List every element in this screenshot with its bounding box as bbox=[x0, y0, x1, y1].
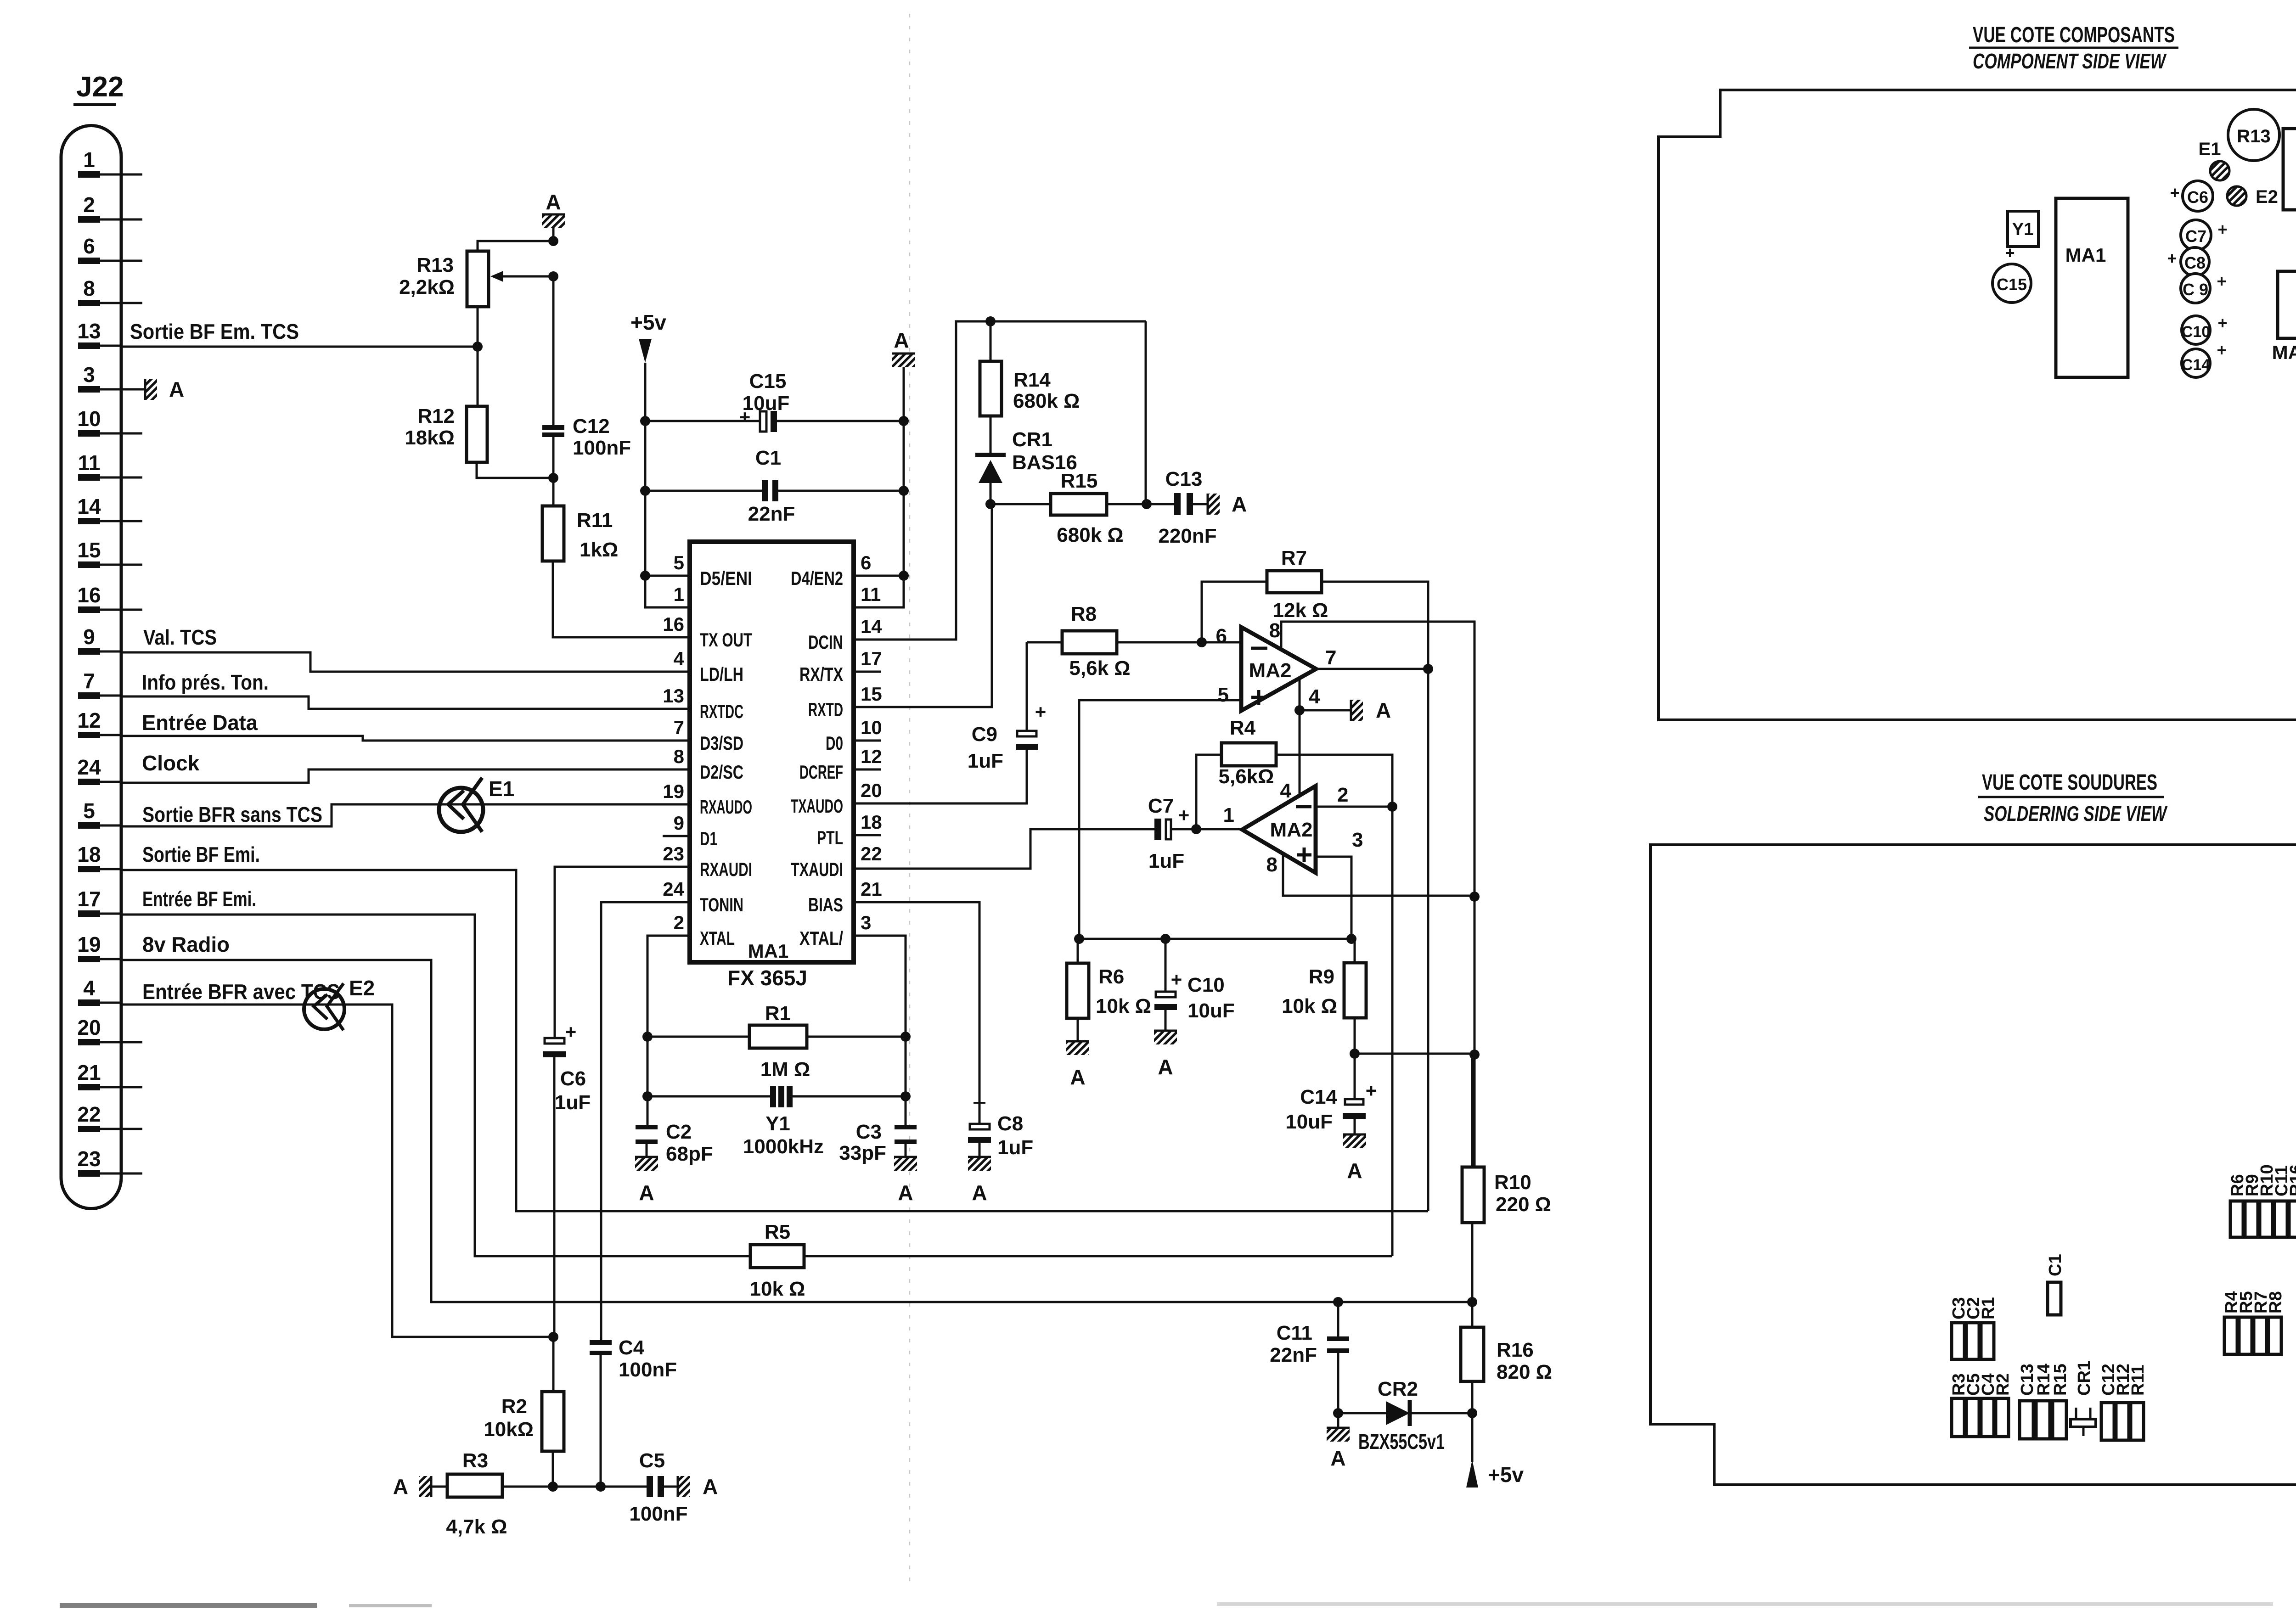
svg-text:5,6kΩ: 5,6kΩ bbox=[1219, 765, 1274, 788]
op-amp U-B MA2 (lower) bbox=[1242, 786, 1316, 873]
svg-text:+: + bbox=[1366, 1080, 1377, 1101]
ground A below R6 bbox=[1066, 1041, 1089, 1055]
ferrite bead E2 bbox=[304, 989, 344, 1029]
ground A below C14 bbox=[1343, 1134, 1366, 1148]
svg-text:Sortie BF Emi.: Sortie BF Emi. bbox=[142, 842, 260, 866]
svg-text:BZX55C5v1: BZX55C5v1 bbox=[1358, 1430, 1445, 1454]
svg-text:12: 12 bbox=[77, 708, 101, 732]
svg-text:RXTDC: RXTDC bbox=[700, 701, 743, 722]
svg-text:10kΩ: 10kΩ bbox=[484, 1418, 534, 1441]
svg-text:C10: C10 bbox=[1187, 974, 1225, 996]
PCB part C9 (component view) bbox=[2181, 274, 2210, 303]
svg-text:14: 14 bbox=[861, 616, 882, 637]
svg-text:D2/SC: D2/SC bbox=[700, 761, 743, 783]
svg-text:PTL: PTL bbox=[817, 827, 843, 848]
svg-text:1: 1 bbox=[1223, 804, 1234, 826]
op-amp U-A MA2 (upper) bbox=[1241, 627, 1316, 711]
svg-text:820 Ω: 820 Ω bbox=[1497, 1361, 1552, 1383]
svg-text:R8: R8 bbox=[1071, 603, 1097, 625]
svg-text:3: 3 bbox=[83, 363, 95, 387]
svg-text:C15: C15 bbox=[749, 370, 787, 393]
svg-text:+: + bbox=[2005, 243, 2015, 262]
svg-text:COMPONENT SIDE VIEW: COMPONENT SIDE VIEW bbox=[1973, 49, 2167, 73]
ground A below C10 bbox=[1154, 1031, 1177, 1044]
svg-text:C 9: C 9 bbox=[2183, 280, 2208, 299]
svg-text:A: A bbox=[393, 1475, 408, 1499]
potentiometer R13 2,2k bbox=[467, 251, 489, 307]
svg-text:1M Ω: 1M Ω bbox=[760, 1058, 810, 1081]
svg-text:18kΩ: 18kΩ bbox=[405, 427, 455, 449]
svg-text:RXAUDI: RXAUDI bbox=[700, 859, 752, 880]
svg-text:C15: C15 bbox=[1997, 275, 2027, 294]
wire R15 to C13 node bbox=[1107, 503, 1174, 505]
wire R2 to bottom rail bbox=[552, 1451, 554, 1487]
svg-text:16: 16 bbox=[663, 613, 684, 635]
svg-text:Sortie BF Em. TCS: Sortie BF Em. TCS bbox=[130, 320, 299, 343]
svg-text:6: 6 bbox=[83, 234, 95, 258]
svg-text:2,2kΩ: 2,2kΩ bbox=[399, 276, 455, 298]
capacitor C2 68pF bbox=[647, 1125, 649, 1127]
svg-text:C12: C12 bbox=[573, 415, 610, 438]
svg-text:+: + bbox=[565, 1021, 577, 1043]
svg-text:Clock: Clock bbox=[142, 751, 200, 775]
svg-text:A: A bbox=[639, 1181, 654, 1205]
wire ground column to MA1 pins 6 and 11 bbox=[854, 367, 904, 607]
svg-text:A: A bbox=[1158, 1055, 1173, 1079]
svg-text:100nF: 100nF bbox=[629, 1503, 687, 1525]
PCB part C7 (component view) bbox=[2181, 220, 2211, 250]
svg-text:D4/EN2: D4/EN2 bbox=[791, 567, 843, 589]
wire MA1 TXAUDI pin 22 to C7 bbox=[854, 829, 1154, 869]
svg-text:RXAUDO: RXAUDO bbox=[700, 796, 752, 818]
resistor R6 10k bbox=[1077, 939, 1079, 963]
svg-text:R16: R16 bbox=[2287, 1164, 2296, 1196]
PCB part MA2 (component view) bbox=[2278, 271, 2296, 338]
svg-text:10: 10 bbox=[77, 407, 101, 431]
wire net Entree BFR avec TCS (J22-4 through E2, down to C6/R2 junction) bbox=[121, 1005, 553, 1337]
svg-text:MA1: MA1 bbox=[2065, 244, 2106, 266]
wire R12 bottom to C12 node bbox=[477, 462, 553, 478]
wire net Entree BF Emi. (J22-17 down to R5) bbox=[121, 915, 750, 1256]
capacitor C10 10uF bbox=[1165, 939, 1167, 993]
capacitor C4 100nF bbox=[590, 1340, 612, 1345]
svg-text:+: + bbox=[739, 406, 751, 428]
svg-text:R11: R11 bbox=[2128, 1364, 2148, 1396]
svg-text:4: 4 bbox=[674, 648, 685, 669]
svg-text:C13: C13 bbox=[1165, 468, 1203, 490]
svg-text:23: 23 bbox=[663, 843, 684, 864]
svg-text:A: A bbox=[546, 190, 561, 214]
svg-text:A: A bbox=[1232, 492, 1247, 516]
svg-text:MA1: MA1 bbox=[748, 940, 789, 962]
svg-text:C3: C3 bbox=[856, 1121, 882, 1143]
wire op-amp B plus input down to bias rail bbox=[1316, 857, 1351, 939]
svg-text:11: 11 bbox=[78, 451, 101, 475]
svg-text:3: 3 bbox=[861, 912, 871, 933]
svg-text:21: 21 bbox=[77, 1061, 101, 1084]
svg-text:R8: R8 bbox=[2266, 1291, 2285, 1313]
svg-text:220nF: 220nF bbox=[1158, 525, 1216, 547]
svg-text:Info prés. Ton.: Info prés. Ton. bbox=[142, 670, 269, 694]
svg-text:A: A bbox=[1330, 1446, 1345, 1470]
svg-text:C7: C7 bbox=[1148, 795, 1174, 817]
wire bottom rail bbox=[502, 1486, 647, 1488]
op-amp / IC MA1 FX 365J body bbox=[690, 542, 854, 962]
svg-text:7: 7 bbox=[674, 717, 684, 738]
svg-text:100nF: 100nF bbox=[573, 437, 631, 459]
svg-text:DCREF: DCREF bbox=[799, 761, 843, 783]
svg-text:R13: R13 bbox=[2237, 126, 2270, 146]
svg-text:6: 6 bbox=[1216, 625, 1227, 647]
svg-text:7: 7 bbox=[83, 669, 95, 693]
svg-text:D3/SD: D3/SD bbox=[700, 732, 743, 754]
wire C4 to bottom rail bbox=[600, 1355, 602, 1487]
svg-text:CR2: CR2 bbox=[1378, 1378, 1418, 1400]
ground A below C2 bbox=[635, 1157, 658, 1171]
ground A at op-amp pins 4 bbox=[1351, 700, 1363, 721]
svg-text:12k Ω: 12k Ω bbox=[1273, 599, 1328, 622]
wire R5 right to R4 loop column bbox=[804, 1255, 1392, 1257]
svg-text:C10: C10 bbox=[2182, 323, 2210, 341]
svg-text:RX/TX: RX/TX bbox=[799, 663, 843, 685]
wire C6 to E2/R2 node bbox=[553, 1057, 556, 1337]
PCB part C15 (component view) bbox=[1992, 264, 2031, 303]
svg-text:XTAL/: XTAL/ bbox=[799, 927, 843, 949]
ground A at J22 pin 3 bbox=[121, 388, 145, 391]
svg-text:5,6k Ω: 5,6k Ω bbox=[1069, 657, 1130, 679]
wire net Sortie BFR sans TCS (J22-5 through E1 to MA1 RXAUDO pin 19) bbox=[121, 804, 690, 826]
capacitor C11 22nF bbox=[1333, 1297, 1343, 1307]
svg-text:Sortie BFR sans TCS: Sortie BFR sans TCS bbox=[142, 803, 322, 826]
svg-text:15: 15 bbox=[77, 538, 101, 562]
wire R13 top to ground column bbox=[478, 241, 553, 251]
svg-text:33pF: 33pF bbox=[839, 1142, 886, 1164]
svg-text:20: 20 bbox=[861, 780, 882, 801]
wire +5v rail down to MA1 pins 5 and 1 bbox=[645, 363, 690, 607]
svg-text:680k Ω: 680k Ω bbox=[1057, 524, 1123, 546]
svg-text:22nF: 22nF bbox=[748, 503, 795, 525]
resistor R10 220 bbox=[1471, 1054, 1474, 1167]
svg-text:9: 9 bbox=[674, 812, 684, 834]
svg-text:FX 365J: FX 365J bbox=[727, 966, 807, 990]
svg-text:MA2: MA2 bbox=[2272, 342, 2296, 363]
svg-text:2: 2 bbox=[674, 912, 684, 933]
wire R14 loop right vertical bbox=[1145, 321, 1147, 504]
svg-text:LD/LH: LD/LH bbox=[700, 663, 743, 685]
svg-text:10k Ω: 10k Ω bbox=[1096, 995, 1151, 1017]
svg-text:R6: R6 bbox=[1098, 965, 1124, 988]
ground A below C3 bbox=[894, 1157, 917, 1171]
svg-text:A: A bbox=[1347, 1159, 1362, 1183]
svg-text:A: A bbox=[1070, 1065, 1085, 1089]
svg-text:R12: R12 bbox=[417, 405, 455, 427]
PCB part C10 (component view) bbox=[2182, 316, 2210, 344]
svg-text:23: 23 bbox=[77, 1147, 101, 1171]
svg-text:MA2: MA2 bbox=[1249, 659, 1292, 682]
wire MA1 TONIN pin 24 down to C4 bbox=[601, 902, 690, 1340]
svg-text:8: 8 bbox=[1269, 619, 1280, 642]
svg-text:+5v: +5v bbox=[1488, 1463, 1524, 1487]
resistor R9 10k bbox=[1354, 939, 1356, 963]
svg-text:SOLDERING SIDE VIEW: SOLDERING SIDE VIEW bbox=[1984, 802, 2168, 825]
svg-text:DCIN: DCIN bbox=[808, 631, 843, 653]
svg-text:4: 4 bbox=[83, 976, 95, 1000]
wire op-amp B pin 8 to right column bbox=[1283, 853, 1474, 896]
svg-text:24: 24 bbox=[663, 878, 684, 900]
svg-text:10uF: 10uF bbox=[1285, 1111, 1333, 1133]
resistor R4 5,6k feedback bbox=[1196, 755, 1221, 829]
wire net 8v Radio (J22-19 down and right to R10/R16 junction) bbox=[121, 960, 1472, 1302]
PCB part Y1 (component view) bbox=[2008, 211, 2038, 247]
wire R7 right to output column down to Sortie BF Emi. bbox=[1322, 582, 1428, 1211]
resistor R7 12k feedback bbox=[1202, 582, 1267, 642]
connector J22 outline bbox=[61, 125, 121, 1208]
svg-text:15: 15 bbox=[861, 683, 882, 705]
svg-text:R5: R5 bbox=[765, 1221, 790, 1243]
svg-text:Y1: Y1 bbox=[765, 1112, 790, 1135]
svg-text:8: 8 bbox=[83, 276, 95, 300]
svg-text:A: A bbox=[894, 328, 909, 352]
svg-text:1uF: 1uF bbox=[997, 1136, 1033, 1159]
svg-text:VUE COTE SOUDURES: VUE COTE SOUDURES bbox=[1982, 770, 2157, 795]
power +5v (bottom) bbox=[1471, 1413, 1474, 1462]
wire node to R12 bbox=[477, 347, 479, 406]
diode CR2 BZX55C5v1 bbox=[1338, 1412, 1386, 1415]
svg-text:TXAUDI: TXAUDI bbox=[791, 859, 843, 880]
svg-text:Entrée Data: Entrée Data bbox=[142, 711, 258, 735]
svg-text:18: 18 bbox=[861, 811, 882, 833]
wire net Clock (J22-24 to MA1 D2/SC pin 8) bbox=[121, 769, 690, 783]
svg-text:6: 6 bbox=[861, 552, 871, 573]
wire C12 to R11 bbox=[552, 437, 555, 506]
svg-text:D5/ENI: D5/ENI bbox=[700, 567, 752, 589]
wire op-amp A pin 4 to ground and op-amp B pin 4 bbox=[1299, 678, 1301, 796]
wire op-amp A plus input to bias rail bbox=[1079, 700, 1241, 939]
svg-text:100nF: 100nF bbox=[619, 1358, 677, 1381]
wire net Val. TCS (J22-9 to MA1 LD/LH pin 4) bbox=[121, 652, 690, 672]
svg-text:R4: R4 bbox=[1230, 717, 1256, 739]
svg-text:C1: C1 bbox=[755, 447, 781, 469]
svg-text:10: 10 bbox=[861, 717, 882, 738]
svg-text:14: 14 bbox=[77, 494, 101, 518]
wire ground column down to C12 bbox=[552, 276, 555, 425]
svg-text:8v Radio: 8v Radio bbox=[142, 932, 230, 956]
wire C7 node to op-amp B pin 1 bbox=[1196, 828, 1242, 831]
svg-text:13: 13 bbox=[663, 685, 684, 707]
svg-text:A: A bbox=[1376, 698, 1391, 722]
svg-text:5: 5 bbox=[674, 552, 684, 573]
svg-text:680k Ω: 680k Ω bbox=[1013, 390, 1080, 412]
svg-text:1uF: 1uF bbox=[555, 1091, 591, 1114]
svg-text:24: 24 bbox=[77, 755, 101, 779]
svg-text:+: + bbox=[1178, 804, 1190, 826]
capacitor C3 33pF bbox=[895, 1125, 917, 1129]
svg-text:1000kHz: 1000kHz bbox=[743, 1135, 824, 1158]
resistor R12 18k bbox=[467, 406, 487, 462]
svg-text:18: 18 bbox=[77, 842, 101, 866]
svg-text:R16: R16 bbox=[1497, 1339, 1534, 1361]
svg-text:BIAS: BIAS bbox=[808, 894, 843, 915]
wire R13 bottom to node bbox=[477, 307, 479, 347]
svg-text:R9: R9 bbox=[1309, 965, 1334, 988]
PCB part J22 (component view) bbox=[2283, 129, 2296, 210]
wire net Entree Data (J22-12 to MA1 D3/SD pin 7) bbox=[121, 736, 690, 741]
svg-text:C6: C6 bbox=[2187, 188, 2208, 207]
resistor R16 820 bbox=[1471, 1302, 1474, 1327]
svg-text:220 Ω: 220 Ω bbox=[1496, 1193, 1551, 1216]
wire MA1 RXTD pin 15 up to CR1 anode node bbox=[854, 504, 992, 707]
svg-text:13: 13 bbox=[77, 319, 101, 343]
svg-text:R13: R13 bbox=[416, 254, 454, 276]
svg-text:+: + bbox=[2167, 249, 2177, 268]
svg-text:22: 22 bbox=[861, 843, 882, 864]
PCB outline soldering side bbox=[1650, 845, 2296, 1485]
svg-text:+: + bbox=[2217, 314, 2227, 332]
capacitor C13 220nF bbox=[1174, 493, 1181, 515]
resistor R1 1M bbox=[647, 1036, 749, 1038]
svg-text:CR1: CR1 bbox=[1012, 428, 1052, 451]
svg-text:A: A bbox=[703, 1475, 718, 1499]
wire CR1 anode to R15 bbox=[990, 503, 1051, 505]
ground A right of C13 bbox=[1193, 503, 1208, 505]
wire MA1 XTAL/ pin 3 down right column bbox=[854, 936, 906, 1126]
svg-text:C8: C8 bbox=[2184, 253, 2206, 272]
crystal Y1 1000kHz bbox=[647, 1095, 770, 1098]
svg-text:17: 17 bbox=[77, 887, 101, 911]
svg-text:4: 4 bbox=[1280, 780, 1292, 802]
svg-text:D0: D0 bbox=[826, 732, 843, 754]
svg-text:16: 16 bbox=[77, 583, 101, 607]
resistor R2 10k bbox=[552, 1337, 555, 1392]
svg-text:12: 12 bbox=[861, 746, 882, 767]
svg-text:5: 5 bbox=[83, 799, 95, 823]
resistor R11 1k bbox=[542, 506, 564, 561]
wire bias rail bbox=[1079, 938, 1351, 940]
ground A below C8 bbox=[968, 1157, 991, 1171]
wire MA1 BIAS pin 21 down to C8 bbox=[854, 902, 979, 1125]
svg-text:+: + bbox=[2217, 341, 2226, 359]
wire op-amp A output pin 7 bbox=[1316, 668, 1428, 670]
svg-text:C9: C9 bbox=[972, 723, 997, 746]
resistor R15 680k bbox=[1051, 494, 1107, 515]
svg-text:A: A bbox=[169, 377, 184, 401]
svg-text:17: 17 bbox=[861, 648, 882, 669]
ground A right of C5 bbox=[678, 1476, 690, 1497]
svg-text:3: 3 bbox=[1352, 829, 1363, 851]
svg-text:+: + bbox=[1035, 701, 1047, 723]
capacitor C5 100nF bbox=[647, 1476, 653, 1497]
svg-text:TONIN: TONIN bbox=[700, 894, 743, 915]
svg-text:E2: E2 bbox=[2256, 187, 2278, 207]
svg-text:A: A bbox=[898, 1181, 913, 1205]
capacitor C8 1uF bbox=[974, 1102, 985, 1104]
diode CR1 BAS16 bbox=[990, 416, 992, 455]
svg-text:C14: C14 bbox=[1300, 1086, 1337, 1108]
svg-text:+: + bbox=[2217, 220, 2227, 239]
svg-text:E1: E1 bbox=[2199, 139, 2221, 159]
svg-text:R10: R10 bbox=[1494, 1171, 1531, 1194]
svg-text:C14: C14 bbox=[2182, 356, 2210, 374]
svg-text:R3: R3 bbox=[462, 1449, 488, 1472]
wire R8 to op-amp minus input node bbox=[1117, 641, 1241, 644]
svg-text:TX OUT: TX OUT bbox=[700, 629, 752, 651]
svg-text:68pF: 68pF bbox=[666, 1143, 713, 1165]
PCB via E1 (component view) bbox=[2210, 161, 2229, 180]
PCB part R13 (component view) bbox=[2228, 109, 2279, 161]
svg-text:Val. TCS: Val. TCS bbox=[143, 625, 217, 649]
resistor R3 4,7k bbox=[431, 1486, 447, 1488]
svg-text:C4: C4 bbox=[619, 1336, 645, 1359]
wire net Sortie BF Emi. (J22-18 down and right to op-amp output column) bbox=[121, 870, 1428, 1211]
svg-text:CR1: CR1 bbox=[2075, 1361, 2094, 1396]
resistor R5 10k bbox=[750, 1245, 804, 1268]
svg-text:R14: R14 bbox=[1013, 369, 1051, 391]
svg-text:A: A bbox=[972, 1181, 987, 1205]
svg-text:10k Ω: 10k Ω bbox=[1282, 995, 1337, 1017]
resistor R14 680k bbox=[990, 321, 992, 361]
svg-text:C11: C11 bbox=[1277, 1322, 1312, 1344]
svg-text:D1: D1 bbox=[700, 828, 717, 849]
wire op-amp A pin 8 to right column bbox=[1281, 622, 1474, 1167]
PCB part C6 (component view) bbox=[2183, 181, 2213, 211]
wire R11 to MA1 TXOUT pin 16 bbox=[553, 561, 690, 637]
svg-text:22: 22 bbox=[77, 1102, 101, 1126]
svg-text:+5v: +5v bbox=[630, 310, 666, 334]
svg-text:4: 4 bbox=[1309, 685, 1320, 708]
wire net Sortie BF Em. TCS (J22-13 to R12/R13 junction) bbox=[121, 346, 477, 348]
svg-text:C1: C1 bbox=[2046, 1254, 2065, 1276]
svg-text:5: 5 bbox=[1218, 684, 1229, 706]
svg-text:R1: R1 bbox=[765, 1002, 791, 1025]
svg-text:VUE COTE COMPOSANTS: VUE COTE COMPOSANTS bbox=[1973, 23, 2175, 47]
wire MA1 DCIN pin 14 up to R14 loop bbox=[854, 321, 1146, 640]
page fold mark (faint dotted vertical) bbox=[909, 14, 911, 1589]
svg-text:C5: C5 bbox=[639, 1449, 665, 1472]
ferrite bead E1 bbox=[439, 788, 483, 832]
capacitor C12 100nF bbox=[542, 425, 564, 430]
svg-text:Y1: Y1 bbox=[2012, 220, 2033, 239]
svg-text:4,7k Ω: 4,7k Ω bbox=[446, 1516, 507, 1538]
PCB via E2 (component view) bbox=[2227, 186, 2246, 206]
PCB part C14 (component view) bbox=[2182, 349, 2210, 377]
wire MA1 RXAUDI pin 23 down to C6 bbox=[555, 867, 690, 1039]
svg-text:19: 19 bbox=[663, 780, 684, 802]
svg-text:E2: E2 bbox=[349, 976, 375, 1000]
svg-text:C2: C2 bbox=[666, 1121, 692, 1143]
PCB part MA1 (component view) bbox=[2056, 198, 2128, 377]
svg-text:XTAL: XTAL bbox=[700, 927, 735, 949]
scanner streaks bottom edge bbox=[60, 1603, 317, 1608]
svg-text:RXTD: RXTD bbox=[808, 699, 843, 720]
svg-text:1uF: 1uF bbox=[1148, 850, 1184, 872]
capacitor C14 10uF bbox=[1354, 1054, 1356, 1100]
PCB part C8 (component view) bbox=[2181, 247, 2209, 276]
svg-text:MA2: MA2 bbox=[1270, 819, 1313, 841]
svg-text:R15: R15 bbox=[1061, 470, 1098, 492]
svg-text:1kΩ: 1kΩ bbox=[580, 539, 618, 561]
R13 wiper arrow bbox=[495, 275, 553, 278]
wire MA1 XTAL pin 2 down left column bbox=[647, 936, 690, 1126]
svg-text:Entrée BF Emi.: Entrée BF Emi. bbox=[142, 887, 256, 911]
wire MA1 TXAUDO pin 20 to C9 bbox=[854, 750, 1027, 803]
svg-text:1: 1 bbox=[674, 584, 684, 605]
svg-text:1uF: 1uF bbox=[968, 750, 1003, 772]
svg-text:20: 20 bbox=[77, 1016, 101, 1039]
svg-text:10k Ω: 10k Ω bbox=[750, 1278, 805, 1300]
svg-text:R7: R7 bbox=[1281, 547, 1307, 569]
ground A below C11/CR2 node bbox=[1337, 1413, 1339, 1428]
svg-text:9: 9 bbox=[83, 625, 95, 649]
